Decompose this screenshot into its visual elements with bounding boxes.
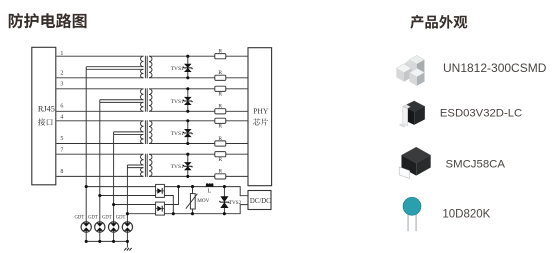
svg-text:R: R <box>218 169 222 175</box>
svg-text:8: 8 <box>60 169 63 175</box>
svg-text:PHY: PHY <box>253 106 269 115</box>
svg-text:RJ45: RJ45 <box>38 104 55 113</box>
svg-text:UN1812-300CSMD: UN1812-300CSMD <box>443 61 547 75</box>
svg-text:TVS1: TVS1 <box>171 66 184 72</box>
svg-text:R: R <box>218 157 222 163</box>
svg-text:TVS1: TVS1 <box>171 99 184 105</box>
svg-text:L: L <box>208 189 212 195</box>
svg-text:GDT: GDT <box>116 216 126 221</box>
svg-text:R: R <box>218 136 222 142</box>
svg-text:DC/DC: DC/DC <box>250 198 271 205</box>
svg-text:MOV: MOV <box>197 198 209 204</box>
svg-text:6: 6 <box>60 104 63 110</box>
svg-text:7: 7 <box>60 148 63 154</box>
svg-text:GDT: GDT <box>75 216 85 221</box>
svg-text:GDT: GDT <box>102 216 112 221</box>
svg-text:R: R <box>218 92 222 98</box>
svg-text:TVS2: TVS2 <box>229 200 242 206</box>
svg-text:1: 1 <box>60 51 63 57</box>
svg-text:R: R <box>218 104 222 110</box>
svg-text:R: R <box>218 124 222 130</box>
svg-text:TVS1: TVS1 <box>171 131 184 137</box>
svg-text:2: 2 <box>60 71 63 77</box>
svg-text:10D820K: 10D820K <box>442 208 490 220</box>
svg-text:R: R <box>218 49 222 55</box>
svg-text:4: 4 <box>60 115 63 121</box>
svg-text:R: R <box>218 70 222 76</box>
svg-text:SMCJ58CA: SMCJ58CA <box>446 158 506 170</box>
svg-text:ESD03V32D-LC: ESD03V32D-LC <box>440 108 522 120</box>
svg-text:3: 3 <box>60 82 63 88</box>
svg-text:GDT: GDT <box>88 216 98 221</box>
svg-text:5: 5 <box>60 136 63 142</box>
svg-text:TVS1: TVS1 <box>171 164 184 170</box>
